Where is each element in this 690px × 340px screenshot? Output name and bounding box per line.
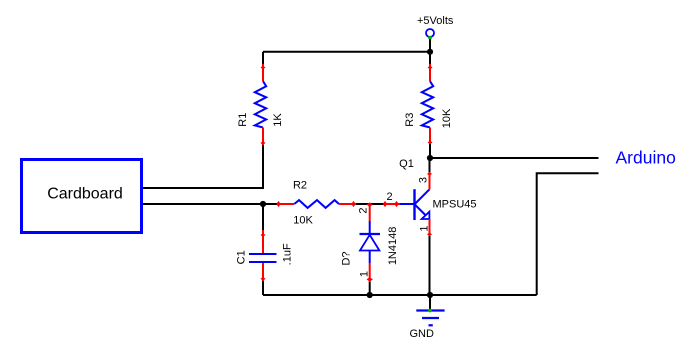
svg-text:+5Volts: +5Volts: [417, 15, 454, 27]
label Arduino: [616, 148, 676, 168]
wire bottom rail: [263, 294, 537, 296]
svg-text:Q1: Q1: [399, 158, 414, 170]
svg-text:1: 1: [358, 271, 370, 277]
wire R2 to diode junction: [356, 203, 384, 205]
wire R1 to Cardboard: [143, 145, 263, 188]
svg-text:10K: 10K: [293, 215, 313, 227]
svg-text:MPSU45: MPSU45: [433, 199, 477, 211]
wire Arduino second line: [537, 173, 599, 295]
svg-text:1K: 1K: [272, 113, 284, 127]
capacitor C1: [235, 204, 293, 295]
svg-text:1: 1: [418, 225, 430, 231]
svg-text:D?: D?: [341, 251, 353, 265]
transistor Q1 MPSU45: [386, 158, 476, 236]
svg-text:R2: R2: [293, 180, 307, 192]
node diode bottom junction: [367, 292, 373, 298]
wire Cardboard to node A: [143, 203, 263, 205]
wire collector to Arduino: [430, 157, 599, 159]
power terminal +5Volts: [417, 15, 454, 52]
svg-text:2: 2: [357, 207, 369, 213]
resistor R3: [404, 52, 453, 158]
node A junction (C1/R2): [260, 201, 266, 207]
node collector junction: [427, 155, 433, 161]
resistor R1: [237, 52, 284, 145]
svg-text:R3: R3: [404, 113, 416, 127]
svg-text:1N4148: 1N4148: [387, 227, 399, 266]
node junction top rail / R3: [427, 49, 433, 55]
svg-text:2: 2: [386, 191, 392, 203]
node emitter bottom junction: [427, 292, 433, 298]
svg-text:.1uF: .1uF: [281, 243, 293, 265]
svg-text:3: 3: [418, 177, 430, 183]
svg-text:C1: C1: [235, 250, 247, 264]
ground GND: [410, 295, 445, 340]
svg-text:10K: 10K: [441, 108, 453, 128]
svg-text:R1: R1: [237, 113, 249, 127]
diode D?: [341, 202, 399, 295]
resistor R2: [263, 180, 356, 227]
svg-text:Cardboard: Cardboard: [47, 186, 123, 203]
wire top rail: [263, 51, 430, 53]
svg-text:GND: GND: [410, 328, 435, 340]
svg-text:Arduino: Arduino: [616, 148, 676, 168]
wire emitter down: [429, 236, 431, 295]
box Cardboard: [22, 160, 142, 233]
wire diode junction to transistor base: [383, 201, 400, 207]
